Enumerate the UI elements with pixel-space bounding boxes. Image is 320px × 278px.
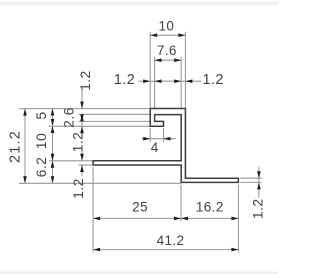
arrow bar1.2 lower outside xyxy=(80,114,84,121)
ext line hook inner left (X17.4) top xyxy=(154,57,156,114)
arrow dim5 bottom xyxy=(51,119,55,126)
arrow right1.2 lower outside xyxy=(257,182,261,189)
svg-text:21.2: 21.2 xyxy=(8,130,24,163)
bottom page separator line xyxy=(0,272,278,274)
dim line chain 5/10/6.2 xyxy=(52,109,54,184)
svg-text:2.6: 2.6 xyxy=(61,107,77,128)
ext line Y5 left xyxy=(49,125,150,127)
ext line Y15 flange top left xyxy=(49,160,93,162)
arrow dim21.2 bottom xyxy=(23,176,27,183)
profile body outline xyxy=(93,109,238,183)
arrow dim21.2 top xyxy=(23,109,27,116)
svg-text:5: 5 xyxy=(33,111,49,119)
svg-text:1.2: 1.2 xyxy=(70,178,86,199)
arrow dim10v bottom xyxy=(51,154,55,161)
ext line X0 bottom xyxy=(92,167,94,253)
arrow dim5 top xyxy=(51,109,55,116)
svg-text:6.2: 6.2 xyxy=(33,157,49,178)
arrow dim16.2 right xyxy=(231,217,238,221)
arrow dim25 left xyxy=(93,217,100,221)
arrow dim6.2 bottom xyxy=(51,176,55,183)
svg-text:41.2: 41.2 xyxy=(157,233,185,248)
arrow stem1.2 left outside xyxy=(174,79,181,83)
top page separator band xyxy=(0,1,278,4)
ext line Y1.2 left xyxy=(79,113,150,115)
arrow dim16.2 left xyxy=(181,217,188,221)
svg-text:4: 4 xyxy=(151,140,159,155)
ext line right flange bottom (Y21.2) xyxy=(240,181,262,183)
dim line 7.6 xyxy=(155,59,182,61)
dim line 25 / 16.2 xyxy=(93,217,238,219)
arrow dim41.2 right xyxy=(231,248,238,252)
dim line row 1.2 / 1.2 top xyxy=(139,80,202,82)
ext line stem inner left (X25) top xyxy=(180,57,182,108)
arrow dim41.2 left xyxy=(93,248,100,252)
arrow dim4 left outside xyxy=(143,137,150,141)
arrow stem1.2 right outside xyxy=(185,79,192,83)
svg-text:1.2: 1.2 xyxy=(203,72,224,88)
ext line X41.2 bottom xyxy=(237,185,239,253)
arrow dim10 left xyxy=(150,33,157,37)
arrow flange1.2 lower outside xyxy=(80,165,84,172)
dim line 21.2 xyxy=(24,109,26,184)
arrow dim4 right outside xyxy=(164,137,171,141)
arrow dim7.6 left xyxy=(155,58,162,62)
ext line Y16.2 flange bottom left xyxy=(79,164,93,166)
arrow dim10v top xyxy=(51,126,55,133)
arrow right1.2 upper outside xyxy=(257,171,261,178)
svg-text:1.2: 1.2 xyxy=(70,132,86,153)
arrow dim7.6 right xyxy=(174,58,181,62)
dim line 10 xyxy=(150,34,185,36)
svg-text:16.2: 16.2 xyxy=(196,200,224,215)
svg-text:7.6: 7.6 xyxy=(157,43,177,58)
arrow dim6.2 top xyxy=(51,161,55,168)
svg-text:10: 10 xyxy=(158,19,174,34)
ext line Y21.2 bottom left xyxy=(19,182,181,184)
ext line hook outer left (X16.2) top xyxy=(149,32,151,108)
arrow bar1.2 upper outside xyxy=(80,102,84,109)
svg-text:1.2: 1.2 xyxy=(77,70,93,91)
ext line stem outer right (X26.2) top xyxy=(184,32,186,108)
ext line Y3.8 left xyxy=(79,120,150,122)
arrow leg1.2 right outside xyxy=(155,79,162,83)
ext line X25 bottom xyxy=(180,185,182,222)
ext line Y0 left xyxy=(19,108,150,110)
arrow flange1.2 upper outside xyxy=(80,154,84,161)
arrow dim10 right xyxy=(178,33,185,37)
dim line left 1.2 lower segment xyxy=(81,149,83,161)
dim line left 1.2 upper segment xyxy=(81,90,83,109)
dim line 4 xyxy=(142,138,176,140)
ext line lip right (X20.2) for dim 4 xyxy=(163,128,165,142)
dim line right 1.2 xyxy=(258,167,260,198)
dim line 41.2 xyxy=(93,249,238,251)
svg-text:1.2: 1.2 xyxy=(114,72,135,88)
ext line lip left (X16.2) for dim 4 xyxy=(149,128,151,142)
dim line left 1.2 mid segment xyxy=(81,114,83,136)
svg-text:10: 10 xyxy=(33,133,49,149)
svg-text:1.2: 1.2 xyxy=(250,198,266,219)
arrow dim25 right xyxy=(174,217,181,221)
ext line right flange top (Y20) xyxy=(240,177,262,179)
arrow leg1.2 left outside xyxy=(143,79,150,83)
arrow lip1.2 upper outside xyxy=(80,114,84,121)
svg-text:25: 25 xyxy=(132,199,148,214)
dim line left 1.2 flange segment xyxy=(81,165,83,176)
arrow lip1.2 lower outside xyxy=(80,126,84,133)
